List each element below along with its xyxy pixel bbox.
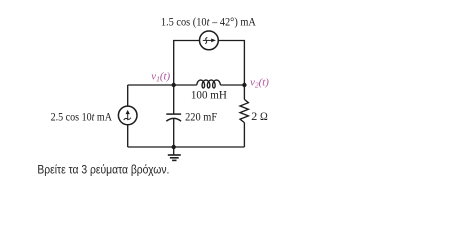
svg-text:2.5 cos 10t mA: 2.5 cos 10t mA — [51, 110, 113, 124]
svg-text:v1(t): v1(t) — [151, 70, 170, 83]
svg-text:100 mH: 100 mH — [191, 90, 227, 102]
svg-text:Ω: Ω — [260, 109, 268, 123]
svg-text:v2(t): v2(t) — [250, 77, 269, 90]
svg-text:1.5 cos (10t – 42°) mA: 1.5 cos (10t – 42°) mA — [161, 16, 257, 28]
svg-text:2: 2 — [251, 109, 257, 123]
svg-text:220 mF: 220 mF — [185, 112, 217, 124]
svg-text:Βρείτε τα 3 ρεύματα βρόχων.: Βρείτε τα 3 ρεύματα βρόχων. — [37, 165, 169, 177]
